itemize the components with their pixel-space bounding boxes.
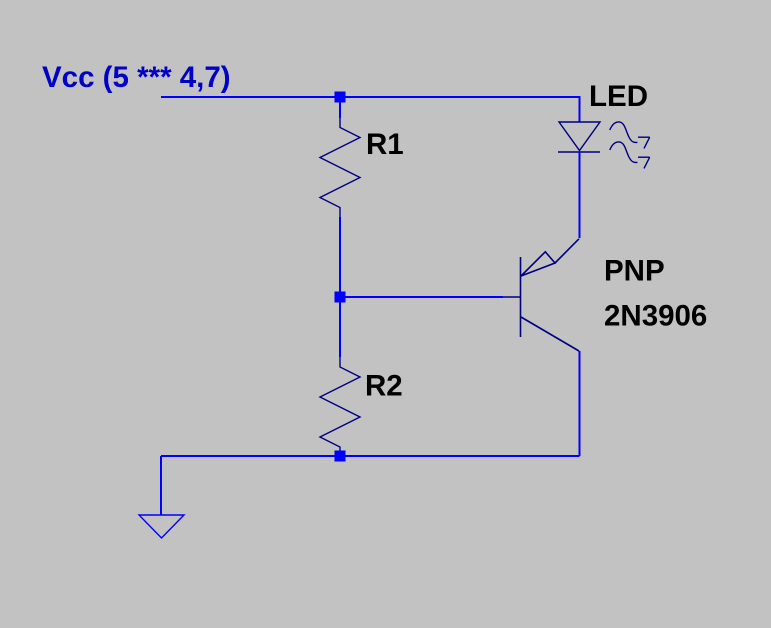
base bar	[520, 257, 522, 337]
collector line	[521, 317, 579, 351]
wire top rail Vcc	[161, 97, 580, 122]
resistor R1	[320, 118, 360, 217]
emitter arrowhead	[521, 252, 555, 276]
svg-text:2N3906: 2N3906	[604, 300, 707, 333]
wire LED cathode to emitter	[579, 152, 581, 238]
wire R1 bottom to node B	[339, 217, 341, 297]
wire R2 top stub	[339, 297, 341, 357]
node A (Vcc/R1)	[335, 92, 346, 103]
wire R1 top pin stub	[339, 97, 341, 118]
base pin	[503, 296, 521, 298]
wire base: node B to transistor	[340, 296, 503, 298]
light arrow 1	[610, 122, 650, 148]
svg-text:R2: R2	[365, 370, 403, 403]
wire bottom rail	[161, 455, 580, 457]
node B (R1/R2/base)	[335, 292, 346, 303]
svg-text:LED: LED	[589, 80, 648, 113]
ground symbol	[139, 515, 184, 538]
LED D1	[558, 122, 600, 152]
wire ground stem	[160, 456, 162, 515]
node C (R2/ground rail)	[335, 451, 346, 462]
wire collector down	[579, 351, 581, 456]
resistor R2	[320, 357, 360, 456]
light arrow 2	[610, 142, 650, 169]
emitter line	[555, 239, 579, 263]
transistor Q1 PNP	[503, 239, 579, 351]
svg-text:PNP: PNP	[604, 255, 665, 288]
svg-text:Vcc (5 *** 4,7): Vcc (5 *** 4,7)	[42, 61, 231, 94]
svg-text:R1: R1	[366, 128, 404, 161]
